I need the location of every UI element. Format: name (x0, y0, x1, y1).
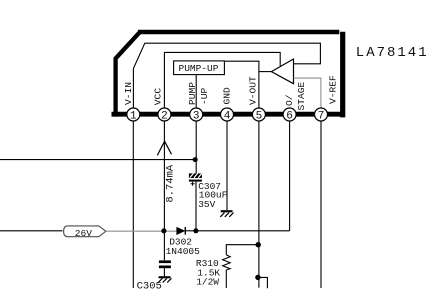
svg-text:3: 3 (193, 111, 200, 123)
wire 26V rail gray segment (106, 230, 177, 232)
node junction on pin3 wire at horizontal feed (193, 157, 198, 162)
svg-text:C305: C305 (137, 281, 162, 293)
wire horizontal feed from left edge (0, 159, 195, 161)
svg-text:35V: 35V (198, 199, 215, 210)
capacitor C307 (electrolytic) (189, 173, 202, 186)
svg-text:8.74mA: 8.74mA (164, 164, 176, 203)
wire C307 down to diode junction (195, 182, 197, 231)
svg-text:7: 7 (318, 111, 325, 123)
wire 26V rail black segment left (0, 230, 63, 232)
net flag 26V (64, 226, 106, 239)
pin 1 (127, 108, 140, 123)
wire pin7 V-REF down to bottom edge (320, 121, 322, 288)
svg-text:PUMP-UP: PUMP-UP (179, 63, 219, 74)
wire pin2 VCC to op-amp supply (164, 52, 280, 110)
svg-text:V-IN: V-IN (123, 82, 134, 105)
wire internal V-IN net from pin1 to op-amp non-inverting input (133, 43, 320, 109)
capacitor C305 plates (159, 260, 171, 268)
wire pin3 down to C307 (195, 121, 197, 174)
label D302 1N4005 (166, 236, 201, 257)
junction at VCC line on rail (161, 228, 166, 233)
wire pin3 to PUMP-UP block (195, 75, 197, 110)
svg-text:1N4005: 1N4005 (166, 246, 201, 257)
wire R310 to bottom edge (225, 270, 227, 288)
svg-text:VCC: VCC (152, 88, 163, 106)
junction on pin5 line for R310 branch (256, 242, 261, 247)
svg-text:1/2W: 1/2W (196, 276, 219, 287)
op-amp U1 (271, 59, 293, 84)
svg-text:V-REF: V-REF (328, 75, 339, 104)
wire pin5 V-OUT down to bottom edge (258, 121, 260, 288)
svg-text:5: 5 (256, 111, 263, 123)
svg-text:1: 1 (130, 111, 137, 123)
label R310 1.5K 1/2W (196, 258, 221, 288)
wire op-amp inverting input to pin7 V-REF (gray) (294, 78, 321, 109)
svg-text:V-OUT: V-OUT (247, 76, 258, 105)
label C307 100uF 35V (198, 181, 227, 210)
block PUMP-UP (174, 61, 225, 75)
IC U301 LA78141 thick package outline (112, 32, 346, 118)
junction on pin5 line lower branch (255, 275, 260, 280)
ground under pin4 (220, 210, 233, 217)
junction at pin3 net on rail (193, 228, 198, 233)
svg-text:6: 6 (286, 111, 293, 123)
ground under C305 (158, 276, 171, 282)
pin 5 (252, 108, 265, 123)
svg-text:26V: 26V (75, 228, 92, 239)
pin 6 (283, 108, 296, 123)
pin 7 (315, 108, 328, 123)
wire branch to R310 (226, 245, 258, 255)
current direction arrow on VCC line (157, 141, 171, 155)
svg-text:LA78141: LA78141 (356, 45, 426, 61)
svg-text:O/: O/ (284, 94, 295, 106)
wire diode to pin6 riser (185, 230, 289, 232)
wire pin2 down with current arrow (163, 121, 165, 261)
svg-text:4: 4 (224, 111, 231, 123)
svg-text:GND: GND (221, 87, 232, 105)
svg-text:-UP: -UP (199, 87, 210, 105)
wire C305 to ground (163, 268, 165, 276)
wire pin6 down to rail (289, 121, 291, 231)
resistor R310 (223, 255, 231, 270)
wire lower branch to bottom edge (258, 277, 268, 288)
pin 2 (158, 108, 171, 123)
svg-text:2: 2 (161, 111, 168, 123)
svg-text:PUMP: PUMP (187, 82, 198, 105)
svg-text:STAGE: STAGE (296, 81, 307, 110)
pin 3 (190, 108, 203, 123)
pin 4 (221, 108, 234, 123)
wire PUMP-UP block output to pin5 (224, 61, 259, 110)
diode D302 1N4005 (177, 227, 186, 235)
wire pin4 GND down (226, 121, 228, 210)
wire op-amp output to pin5 net (259, 71, 272, 73)
wire pin1 down to bottom edge (132, 121, 134, 288)
